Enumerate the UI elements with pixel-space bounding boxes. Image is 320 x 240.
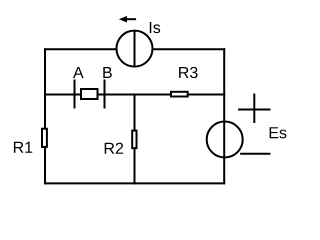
wire right xyxy=(223,48,225,184)
wire middle horizontal A-B-R3 xyxy=(44,94,225,96)
plus sign xyxy=(238,109,270,111)
wire left xyxy=(44,48,46,184)
resistor R1 xyxy=(42,129,47,147)
component A-B box xyxy=(81,89,98,99)
label R1 xyxy=(14,142,32,153)
current source Is xyxy=(117,31,153,67)
label A xyxy=(73,67,84,78)
arrow (Is direction) xyxy=(126,18,136,20)
wire bottom xyxy=(44,182,225,184)
label Is xyxy=(150,22,160,33)
minus sign xyxy=(240,153,270,155)
node B tick xyxy=(104,80,106,109)
voltage source Es xyxy=(207,122,243,158)
label R2 xyxy=(105,143,123,154)
resistor R3 xyxy=(171,92,188,97)
label R3 xyxy=(179,67,197,78)
node A tick xyxy=(74,80,76,109)
label Es xyxy=(270,127,287,138)
wire top xyxy=(44,48,225,50)
label B xyxy=(103,67,112,78)
resistor R2 xyxy=(132,131,136,149)
wire R2 branch xyxy=(134,94,136,185)
